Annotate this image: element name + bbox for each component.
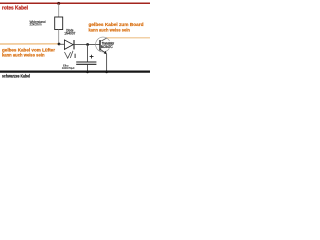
wire node B to diode D1 [59,43,65,45]
label Transistor BC547C [101,41,115,49]
annotation bar mark [74,54,76,58]
label Elko 100/470uF [62,63,75,70]
wire node C down to capacitor C1 [87,45,89,62]
capacitor C1 plus mark [90,55,94,59]
svg-text:gelbes Kabel zum Board: gelbes Kabel zum Board [89,22,144,28]
svg-text:schwarzes Kabel: schwarzes Kabel [2,74,30,79]
transistor Q1 base bar [99,40,101,51]
wire red rail to resistor R1 [58,4,60,18]
label gelbes Kabel zum Board [89,22,144,33]
wire C1 to ground rail [87,65,89,72]
label Diode 1N4007 [64,29,75,36]
transistor Q1 emitter lead with arrow [100,49,107,54]
annotation V mark under diode [65,52,71,58]
junction on red rail (node to R1) [57,2,60,5]
wire: schwarzes Kabel ground rail [0,70,150,72]
junction emitter on ground rail [105,70,108,73]
label Widerstand 22kOhm [30,20,46,27]
resistor R1 [55,17,63,30]
wire: gelbes Kabel vom Luefter (fan yellow cable) [0,43,59,45]
svg-text:kann auch weiss sein: kann auch weiss sein [2,52,45,57]
junction C1 on ground rail [86,70,89,73]
transistor Q1 collector lead [100,38,107,42]
wire R1 to node B [58,30,60,45]
transistor Q1 body circle [96,37,111,52]
capacitor C1 top plate [76,61,96,63]
svg-text:22kOhm: 22kOhm [30,23,42,27]
svg-text:BC547C: BC547C [101,45,113,49]
label rotes Kabel [2,6,29,12]
annotation slash mark [70,51,73,58]
svg-text:rotes Kabel: rotes Kabel [2,6,29,12]
label gelbes Kabel vom Luefter [2,48,55,58]
svg-text:100/470µF: 100/470µF [62,66,75,70]
svg-text:kann auch weiss sein: kann auch weiss sein [89,27,130,33]
wire D1 to Q1 base [74,43,100,45]
junction node C (capacitor tap) [86,43,89,46]
wire: rotes Kabel +12V rail [0,2,150,4]
svg-text:1N4007: 1N4007 [64,32,75,36]
capacitor C1 bottom plate [76,63,96,65]
label schwarzes Kabel [2,74,30,79]
wire Q1 emitter to ground rail [106,54,108,72]
junction node B [58,43,61,46]
diode D1 1N4007 [64,40,74,50]
wire: gelbes Kabel zum Board (collector to board) [107,37,150,39]
